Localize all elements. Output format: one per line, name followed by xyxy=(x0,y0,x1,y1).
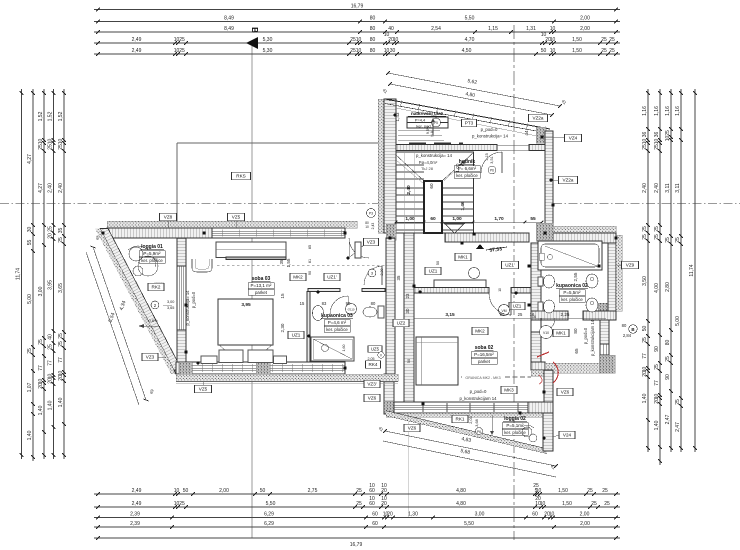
junction dot 6 xyxy=(343,366,346,369)
svg-text:25: 25 xyxy=(654,144,660,150)
corridor dims left xyxy=(308,245,312,275)
wall se connector xyxy=(544,370,553,402)
svg-text:1,52: 1,52 xyxy=(48,111,54,121)
junction dot 10 xyxy=(597,264,600,267)
svg-text:RK4: RK4 xyxy=(369,362,378,367)
svg-text:10: 10 xyxy=(58,139,64,145)
svg-text:2,54: 2,54 xyxy=(431,26,441,32)
svg-text:1,50: 1,50 xyxy=(572,37,582,43)
svg-text:3,00: 3,00 xyxy=(167,300,174,304)
svg-text:3,51: 3,51 xyxy=(490,156,494,163)
dim row kup03 xyxy=(300,301,376,306)
svg-text:natkriveni ulaz: natkriveni ulaz xyxy=(411,111,444,116)
svg-text:10: 10 xyxy=(48,139,54,145)
label VZ3 diag xyxy=(142,353,166,361)
svg-text:11,74: 11,74 xyxy=(16,268,22,280)
label UZ2 xyxy=(393,319,409,327)
svg-text:1,30: 1,30 xyxy=(408,512,418,518)
svg-text:44: 44 xyxy=(524,130,529,136)
svg-text:VZ5: VZ5 xyxy=(199,387,208,392)
dimension chain right 3 xyxy=(665,89,673,452)
svg-text:ker. pločice: ker. pločice xyxy=(504,430,526,435)
slanted dimension 5,68 xyxy=(383,441,556,477)
svg-text:UZ1': UZ1' xyxy=(505,263,515,268)
svg-text:80: 80 xyxy=(370,16,376,22)
label PT3 xyxy=(462,119,477,127)
svg-text:60: 60 xyxy=(532,512,538,518)
svg-text:25: 25 xyxy=(642,234,648,240)
svg-text:VZ2a: VZ2a xyxy=(533,116,544,121)
svg-text:25: 25 xyxy=(675,237,681,243)
wall wc left xyxy=(531,318,541,362)
svg-text:25: 25 xyxy=(654,364,660,370)
svg-text:parket: parket xyxy=(255,290,268,295)
svg-text:25: 25 xyxy=(27,348,33,354)
svg-text:1,70: 1,70 xyxy=(494,216,504,222)
label MK3 xyxy=(501,386,517,394)
svg-text:p_konstrukcija= 14: p_konstrukcija= 14 xyxy=(185,290,190,326)
svg-text:4,27: 4,27 xyxy=(38,183,44,193)
svg-text:25: 25 xyxy=(665,356,671,362)
svg-text:VZ5: VZ5 xyxy=(232,215,241,220)
toilet kup03 xyxy=(363,306,384,318)
dim 1,15 3,51 door xyxy=(485,153,496,174)
svg-text:4,50: 4,50 xyxy=(462,48,472,54)
door arc entrance xyxy=(481,152,502,173)
svg-text:60: 60 xyxy=(429,183,434,189)
svg-text:VZ4: VZ4 xyxy=(569,136,578,141)
svg-text:4,80: 4,80 xyxy=(456,488,466,494)
dim 80 kup02 xyxy=(573,328,578,334)
label UZ1 left xyxy=(288,331,304,339)
junction dot 18 xyxy=(460,241,463,244)
sink kup03 xyxy=(313,304,357,321)
dim 3,95 soba03 xyxy=(241,302,251,308)
svg-text:10: 10 xyxy=(381,483,387,489)
junction dot 3 xyxy=(343,231,346,234)
svg-text:p_pod=0: p_pod=0 xyxy=(583,327,588,344)
svg-text:P=5,5m²: P=5,5m² xyxy=(563,290,581,295)
label hodnik xyxy=(454,159,480,178)
svg-text:2,00: 2,00 xyxy=(580,512,590,518)
dim 69 diag bottom xyxy=(148,388,154,395)
svg-text:1,15: 1,15 xyxy=(488,26,498,32)
section marker B top xyxy=(246,27,259,49)
svg-text:p_konstrukcija= 14: p_konstrukcija= 14 xyxy=(416,153,453,158)
wall leftwing bottom xyxy=(176,362,345,374)
dimension chain top 2 xyxy=(94,16,620,24)
svg-text:77: 77 xyxy=(48,360,54,366)
dimension chain top 3 xyxy=(94,26,620,34)
label MK2 soba02 xyxy=(472,327,488,335)
wall soba02 bottom xyxy=(384,401,553,413)
plant loggia02 xyxy=(522,425,537,442)
svg-text:25: 25 xyxy=(665,237,671,243)
label V24 xyxy=(553,431,575,439)
svg-text:VZ3: VZ3 xyxy=(367,240,376,245)
svg-text:25: 25 xyxy=(48,144,54,150)
label VZ9 xyxy=(617,261,639,269)
svg-text:25: 25 xyxy=(654,234,660,240)
svg-text:1,40: 1,40 xyxy=(642,393,648,403)
svg-text:83: 83 xyxy=(322,301,327,306)
svg-text:55: 55 xyxy=(27,240,33,246)
wall soba02 top xyxy=(414,288,531,294)
dim 30 corridor xyxy=(405,308,410,313)
label RK2 xyxy=(148,283,164,291)
svg-text:VZ3: VZ3 xyxy=(146,355,155,360)
svg-text:25: 25 xyxy=(675,399,681,405)
dim 65 diag top xyxy=(94,234,100,241)
svg-text:5,00: 5,00 xyxy=(675,316,681,326)
label loggia 01 xyxy=(139,244,165,285)
dimension chain bottom 3 xyxy=(94,512,620,520)
label UZ1 corridor2 xyxy=(499,302,526,315)
svg-text:1,40: 1,40 xyxy=(654,420,660,430)
svg-text:25: 25 xyxy=(609,37,615,43)
wall kup02 wc divider xyxy=(531,311,616,320)
svg-text:2,43: 2,43 xyxy=(371,223,375,230)
svg-text:p_pod=0: p_pod=0 xyxy=(191,291,196,308)
svg-text:20: 20 xyxy=(387,512,393,518)
svg-text:2,40: 2,40 xyxy=(406,185,412,195)
wall kup02 right xyxy=(608,235,622,311)
svg-text:1,43: 1,43 xyxy=(395,112,400,121)
svg-text:2,39: 2,39 xyxy=(130,512,140,518)
svg-text:VZ6: VZ6 xyxy=(368,396,377,401)
svg-text:30: 30 xyxy=(405,308,410,313)
svg-text:p_konstrukcija= 14: p_konstrukcija= 14 xyxy=(472,134,509,139)
svg-text:1,52: 1,52 xyxy=(58,111,64,121)
svg-text:10: 10 xyxy=(369,496,375,502)
seat soba03 xyxy=(192,259,212,272)
dimension chain left 4 xyxy=(48,89,56,459)
svg-text:10: 10 xyxy=(642,139,648,145)
bed soba03 xyxy=(218,299,273,363)
wall loggia02 west xyxy=(384,374,394,414)
svg-text:1,40: 1,40 xyxy=(38,405,44,415)
label VZ5 bottom xyxy=(195,382,212,393)
svg-text:80: 80 xyxy=(370,37,376,43)
svg-text:25: 25 xyxy=(601,48,607,54)
svg-text:9,5%: 9,5% xyxy=(426,125,430,134)
svg-text:16,79: 16,79 xyxy=(350,542,363,548)
svg-text:4,00: 4,00 xyxy=(654,283,660,293)
dim 60 stairs xyxy=(429,183,434,189)
dim 3,68 loggia02 xyxy=(475,419,479,426)
axis marker 2 xyxy=(151,300,174,310)
svg-text:25: 25 xyxy=(179,37,185,43)
svg-text:1,50: 1,50 xyxy=(562,501,572,507)
junction dot 17 xyxy=(518,411,521,414)
svg-text:65: 65 xyxy=(574,348,579,354)
label VZ2a top xyxy=(529,114,548,122)
svg-text:MK3: MK3 xyxy=(504,388,514,393)
svg-text:10: 10 xyxy=(369,483,375,489)
svg-text:3,95: 3,95 xyxy=(48,280,54,290)
svg-text:1,60: 1,60 xyxy=(342,345,346,352)
label VZ6 right xyxy=(542,388,573,396)
svg-text:25: 25 xyxy=(665,130,671,136)
corridor cabinet xyxy=(434,280,486,289)
svg-text:1,50: 1,50 xyxy=(572,48,582,54)
window mullions top wall xyxy=(222,230,341,237)
svg-text:1,00: 1,00 xyxy=(452,216,462,222)
svg-text:16,79: 16,79 xyxy=(351,4,364,10)
circled mark P6 xyxy=(476,428,483,435)
svg-text:35: 35 xyxy=(58,228,64,234)
svg-text:2,39: 2,39 xyxy=(130,521,140,527)
junction dot 11 xyxy=(527,303,530,306)
elevation marker 37,33 xyxy=(476,244,507,254)
svg-text:80: 80 xyxy=(665,340,671,346)
svg-text:2,40: 2,40 xyxy=(58,183,64,193)
dimension chain top total xyxy=(94,4,620,12)
washing machine xyxy=(540,326,553,339)
svg-text:3,50: 3,50 xyxy=(642,276,648,286)
svg-text:UZ5: UZ5 xyxy=(371,347,380,352)
label soba 02 xyxy=(471,345,497,364)
dimension chain bottom 2 xyxy=(94,496,620,509)
svg-text:77: 77 xyxy=(58,357,64,363)
door leaf corridor2 xyxy=(355,242,382,285)
svg-text:25: 25 xyxy=(518,312,523,317)
svg-text:VZ8: VZ8 xyxy=(164,215,173,220)
roof outline line RKS xyxy=(177,143,384,228)
svg-text:P6: P6 xyxy=(490,169,494,173)
wall wc right xyxy=(599,320,615,373)
svg-text:P3: P3 xyxy=(369,212,373,216)
sill speckle soba02 xyxy=(386,413,548,417)
svg-text:2,40: 2,40 xyxy=(48,183,54,193)
dim 1,55 soba03 xyxy=(286,258,291,267)
svg-text:10: 10 xyxy=(38,139,44,145)
dimension chain left 5 xyxy=(58,89,66,459)
dim 35 corridor xyxy=(396,261,440,281)
svg-text:P=4,4: P=4,4 xyxy=(415,117,426,122)
label MK1 kup02 xyxy=(553,329,569,337)
label kupaonica 02 xyxy=(556,283,588,302)
label RK1 xyxy=(452,415,468,423)
svg-text:35: 35 xyxy=(279,259,284,264)
svg-text:2,47: 2,47 xyxy=(665,414,671,424)
svg-text:2,49: 2,49 xyxy=(132,48,142,54)
svg-text:parket: parket xyxy=(478,359,491,364)
label kupaonica 03 xyxy=(321,313,353,332)
svg-text:60: 60 xyxy=(372,512,378,518)
svg-text:25: 25 xyxy=(48,226,54,232)
circled mark P3 xyxy=(365,209,375,230)
dim 44 niche xyxy=(524,130,529,136)
dimension chain bottom 4 xyxy=(94,521,620,529)
label natkriveni ulaz xyxy=(407,111,448,128)
svg-text:2,75: 2,75 xyxy=(308,488,318,494)
dimension chain left 3 xyxy=(38,89,46,459)
svg-text:25: 25 xyxy=(179,48,185,54)
svg-text:8,49: 8,49 xyxy=(224,16,234,22)
label soba 03 xyxy=(248,276,274,295)
svg-text:2,49: 2,49 xyxy=(132,37,142,43)
wall top-wing left speckle xyxy=(378,99,384,233)
svg-text:77: 77 xyxy=(38,365,44,371)
label VZ8 top xyxy=(160,213,177,228)
svg-text:Pø=4,0m²: Pø=4,0m² xyxy=(419,160,438,165)
svg-text:P=5,1m²: P=5,1m² xyxy=(506,423,524,428)
svg-text:2,84: 2,84 xyxy=(623,333,632,338)
bathtub xyxy=(538,241,602,270)
svg-text:VZ9: VZ9 xyxy=(626,263,635,268)
svg-text:2,20: 2,20 xyxy=(380,269,384,276)
svg-text:1,00: 1,00 xyxy=(405,216,415,222)
loggia02 railing xyxy=(386,411,547,454)
svg-text:3,11: 3,11 xyxy=(665,183,671,193)
svg-text:1,16: 1,16 xyxy=(665,106,671,116)
svg-text:VZ2a: VZ2a xyxy=(563,178,574,183)
svg-text:10: 10 xyxy=(498,288,502,292)
wall leftwing top xyxy=(107,228,345,238)
svg-text:90: 90 xyxy=(308,271,312,275)
svg-text:16: 16 xyxy=(530,312,535,317)
svg-text:36: 36 xyxy=(654,132,660,138)
label MK1 corridor xyxy=(455,253,471,261)
junction dot 4 xyxy=(184,303,187,306)
svg-text:30: 30 xyxy=(390,48,396,54)
svg-text:25: 25 xyxy=(604,501,610,507)
dimension chain top 5 xyxy=(94,48,620,56)
svg-text:25: 25 xyxy=(609,48,615,54)
wall leftwing top speckle xyxy=(107,221,357,228)
svg-text:5,50: 5,50 xyxy=(464,521,474,527)
dimension chain right 4 xyxy=(675,89,683,452)
svg-text:TkJ 28: TkJ 28 xyxy=(421,166,434,171)
svg-text:40: 40 xyxy=(48,334,54,340)
svg-text:5,00: 5,00 xyxy=(27,294,33,304)
door arc unit2 entry xyxy=(349,238,369,258)
svg-text:25: 25 xyxy=(38,144,44,150)
svg-text:P6: P6 xyxy=(477,430,481,434)
svg-text:25: 25 xyxy=(587,488,593,494)
svg-text:1,31: 1,31 xyxy=(526,26,536,32)
svg-text:2,40: 2,40 xyxy=(642,183,648,193)
label VZ3 mid xyxy=(346,238,378,259)
svg-text:P=4,6 m²: P=4,6 m² xyxy=(328,320,347,325)
svg-text:V10: V10 xyxy=(543,331,549,335)
svg-text:10: 10 xyxy=(381,496,387,502)
svg-text:80: 80 xyxy=(370,26,376,32)
svg-text:1,15: 1,15 xyxy=(485,153,489,160)
junction dot 8 xyxy=(412,284,415,287)
svg-text:80: 80 xyxy=(370,48,376,54)
svg-text:55: 55 xyxy=(530,216,536,222)
svg-text:p_pod=0: p_pod=0 xyxy=(470,389,487,394)
svg-text:50: 50 xyxy=(436,261,440,265)
svg-text:RKS: RKS xyxy=(236,174,245,179)
svg-text:2,25: 2,25 xyxy=(561,312,570,317)
svg-text:P=16,5m²: P=16,5m² xyxy=(474,352,494,357)
svg-text:30: 30 xyxy=(27,227,33,233)
section marker B right xyxy=(622,323,638,338)
svg-text:ker. pločice: ker. pločice xyxy=(141,258,163,263)
svg-text:2,00: 2,00 xyxy=(219,488,229,494)
dim 2,03 loggia02 xyxy=(469,415,494,435)
svg-text:25: 25 xyxy=(642,144,648,150)
wardrobe soba03 xyxy=(216,242,286,260)
reference axis vertical section B xyxy=(513,25,515,540)
sink kup02 a xyxy=(586,274,598,288)
text p_konstrukcija stairs xyxy=(416,153,467,171)
stair wall pier bottom xyxy=(386,224,396,240)
svg-text:B: B xyxy=(250,27,259,33)
svg-text:1,16: 1,16 xyxy=(642,106,648,116)
wall kup02 top xyxy=(541,224,616,311)
svg-text:UZ2: UZ2 xyxy=(397,321,406,326)
svg-text:25: 25 xyxy=(356,488,362,494)
door arc kup03 xyxy=(330,296,348,314)
svg-text:5,30: 5,30 xyxy=(263,37,273,43)
svg-text:1,40: 1,40 xyxy=(27,430,33,440)
svg-text:25: 25 xyxy=(58,237,64,243)
wall kup03 top xyxy=(308,289,385,292)
svg-text:1,16: 1,16 xyxy=(654,106,660,116)
svg-text:25: 25 xyxy=(642,226,648,232)
label RK4 xyxy=(366,346,383,369)
wall diagonal stub xyxy=(174,370,188,381)
dim 2,25 kup02 xyxy=(561,312,570,317)
svg-text:5,50: 5,50 xyxy=(266,501,276,507)
label MK2 leftunit xyxy=(290,273,306,281)
dim 2,55 kup02 xyxy=(573,272,578,281)
svg-text:2,00: 2,00 xyxy=(580,26,590,32)
wall top-wing left xyxy=(384,99,396,233)
svg-text:10: 10 xyxy=(654,139,660,145)
svg-text:80: 80 xyxy=(371,301,376,306)
svg-text:ker. pločice: ker. pločice xyxy=(326,327,348,332)
reference line granica vertical xyxy=(408,390,410,518)
svg-text:0,8%: 0,8% xyxy=(148,318,158,323)
svg-text:11,74: 11,74 xyxy=(689,264,695,276)
svg-text:ker. pločice: ker. pločice xyxy=(456,173,478,178)
beam dashed soba03 xyxy=(217,265,385,267)
wall top-wing right xyxy=(545,131,553,233)
reference axis vertical left xyxy=(251,44,253,538)
svg-text:50: 50 xyxy=(260,488,266,494)
svg-text:MK1: MK1 xyxy=(458,255,468,260)
svg-text:23: 23 xyxy=(405,293,410,298)
stair void walls xyxy=(424,181,442,233)
svg-text:50: 50 xyxy=(407,359,411,363)
label UZ1 corridor xyxy=(425,267,441,275)
svg-text:VZ6: VZ6 xyxy=(408,426,417,431)
svg-text:77: 77 xyxy=(642,353,648,359)
svg-text:2,00: 2,00 xyxy=(580,16,590,22)
svg-text:MK2: MK2 xyxy=(475,329,485,334)
svg-text:10: 10 xyxy=(365,225,369,229)
svg-text:80: 80 xyxy=(573,328,578,334)
sink kup02 b xyxy=(586,298,598,312)
axis marker 3 xyxy=(368,269,384,278)
svg-text:1,40: 1,40 xyxy=(48,400,54,410)
dim 2,40 stairs xyxy=(406,185,412,195)
svg-text:2,49: 2,49 xyxy=(132,488,142,494)
svg-text:25: 25 xyxy=(179,501,185,507)
svg-text:5,50: 5,50 xyxy=(465,16,475,22)
dim 2,30 soba03 xyxy=(280,323,285,332)
text p_pod wc xyxy=(532,315,595,356)
label UZ1 prime leftunit xyxy=(324,273,340,281)
svg-text:p_konstrukcijam 14: p_konstrukcijam 14 xyxy=(459,396,497,401)
svg-text:UZ1': UZ1' xyxy=(327,275,337,280)
entrance slab slant edge xyxy=(385,99,550,136)
